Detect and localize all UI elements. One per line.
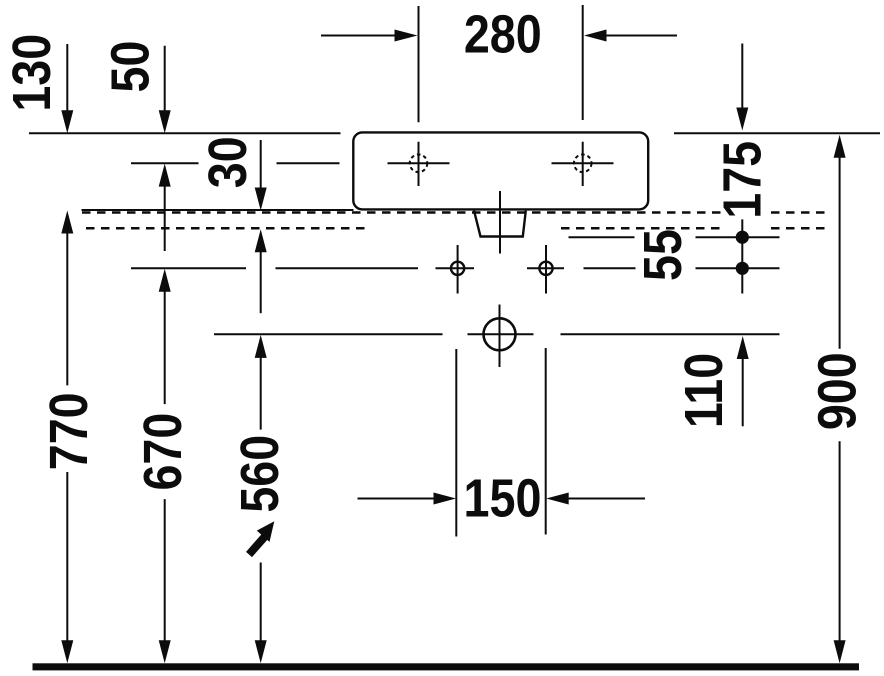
560 pointer arrow xyxy=(249,521,274,554)
drain hole xyxy=(484,305,516,368)
svg-text:55: 55 xyxy=(632,229,693,281)
dimension 670 line xyxy=(159,269,171,664)
dimension 280 left arrow xyxy=(321,30,418,42)
mounting dot upper xyxy=(736,231,749,244)
drain spout trapezoid xyxy=(474,211,526,237)
mounting dot lower xyxy=(736,262,749,275)
svg-text:30: 30 xyxy=(197,136,258,188)
dimension 770 line xyxy=(61,211,73,664)
svg-text:50: 50 xyxy=(99,41,160,93)
dimension 560 line xyxy=(255,335,267,663)
basin center line xyxy=(499,191,501,254)
svg-text:670: 670 xyxy=(132,413,193,491)
svg-text:130: 130 xyxy=(1,34,62,112)
svg-text:770: 770 xyxy=(38,392,99,470)
bolt hole 1 xyxy=(451,245,464,294)
faucet level line xyxy=(131,162,340,164)
wall line (900 level) xyxy=(29,132,880,134)
mounting dots line xyxy=(741,219,743,293)
floor line xyxy=(33,663,860,670)
dimension 150 right arrow xyxy=(546,493,645,505)
dimension 130 arrow xyxy=(61,44,73,133)
drain level line (560 level) xyxy=(214,333,780,335)
svg-text:560: 560 xyxy=(229,435,290,513)
svg-text:150: 150 xyxy=(464,467,542,528)
dashed overflow line xyxy=(86,227,830,230)
basin outline xyxy=(353,132,648,209)
dimension 150 left arrow xyxy=(358,493,457,505)
dimension 175 arrow xyxy=(736,44,748,131)
faucet hole 1 xyxy=(388,142,450,186)
svg-text:175: 175 xyxy=(711,141,772,219)
faucet hole 2 xyxy=(552,142,614,186)
svg-text:900: 900 xyxy=(806,352,867,430)
dimension 280 right arrow xyxy=(584,30,677,42)
dimension 110 arrow xyxy=(737,336,749,426)
svg-text:280: 280 xyxy=(464,3,542,64)
dashed rim line xyxy=(82,211,830,214)
svg-text:110: 110 xyxy=(673,353,734,428)
bolt hole 2 xyxy=(539,245,552,294)
rim level line (770 level) xyxy=(82,209,354,211)
dimension 280 extension lines xyxy=(419,5,583,122)
dimension 150 extension lines xyxy=(456,348,545,537)
dimension 50 arrow xyxy=(159,46,171,134)
dimension 30 lower arrow xyxy=(255,229,267,313)
dimension 50 lower arrow xyxy=(159,164,171,251)
dimension 900 line xyxy=(834,135,846,664)
bolt hole level line (670 level) xyxy=(131,267,780,269)
dimension 30 arrow xyxy=(255,140,267,211)
upper dot level line xyxy=(569,236,780,238)
